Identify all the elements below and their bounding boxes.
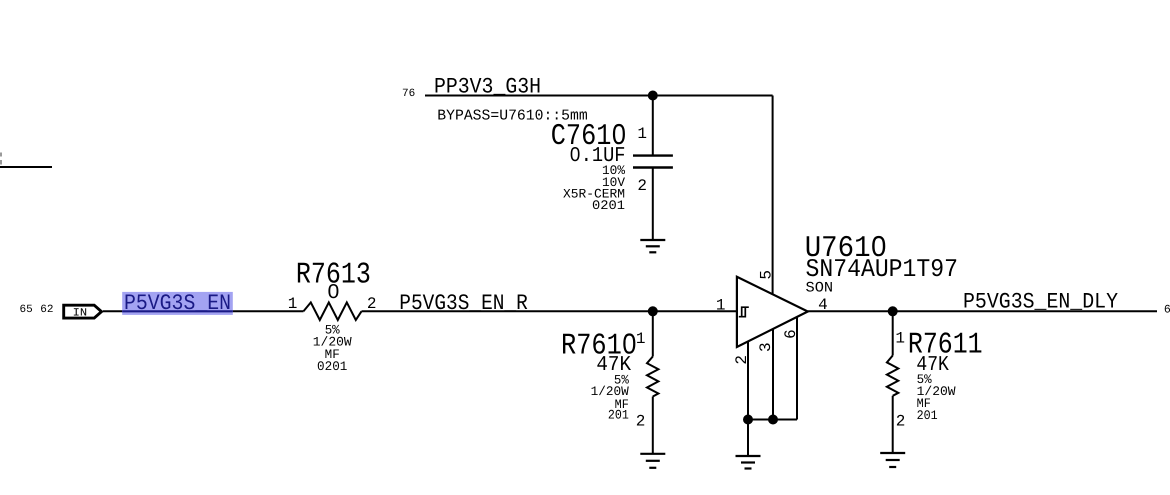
ground under C7610: [640, 240, 665, 252]
U7610 pin 6 label (rotated): [782, 329, 800, 339]
wire: R7611 bottom lead: [892, 396, 894, 453]
ground under U7610 control pins: [736, 456, 761, 469]
ground under R7611: [880, 453, 905, 467]
wire: U7610 pin 3 down: [772, 329, 774, 420]
wire: PP3V3_G3H horizontal net wire: [425, 95, 773, 97]
svg-text:0: 0: [327, 282, 340, 305]
svg-text:0201: 0201: [317, 359, 347, 374]
wire: U7610 pin 6 down: [796, 317, 798, 420]
junction dot at PP3V3_G3H / C7610: [648, 91, 658, 101]
wire: cap top lead: [652, 96, 654, 156]
svg-text:2: 2: [896, 413, 906, 431]
net label underline (navy): [122, 310, 233, 312]
U7610 pin 3 label (rotated): [757, 342, 775, 352]
resistor R7610 (pulldown): [647, 311, 658, 454]
wire: R7610 bottom lead: [652, 397, 654, 454]
svg-text:1: 1: [716, 297, 726, 315]
R7610 zigzag body: [647, 357, 658, 397]
op-amp buffer U7610 triangle: [737, 277, 808, 347]
svg-text:62: 62: [40, 304, 53, 316]
svg-text:P5VG3S_EN_DLY: P5VG3S_EN_DLY: [963, 290, 1118, 315]
wire: R7613 to U7610 pin 1: [362, 310, 737, 312]
svg-text:201: 201: [917, 408, 938, 423]
svg-text:65: 65: [20, 304, 33, 316]
wire: junction to R7611 top: [892, 311, 894, 355]
svg-text:1: 1: [895, 329, 905, 347]
svg-text:5: 5: [757, 270, 775, 280]
U7610 pin 5 label (rotated): [757, 270, 775, 280]
resistor R7613 (series 0 ohm): [304, 302, 362, 320]
svg-text:PP3V3_G3H: PP3V3_G3H: [434, 75, 541, 100]
junction dot output / R7611: [888, 306, 898, 316]
wire: down-right corner to U7610 pin 5: [772, 96, 774, 295]
svg-text:2: 2: [636, 413, 646, 431]
svg-text:1: 1: [637, 125, 647, 143]
wire: cap bottom lead: [652, 168, 654, 241]
svg-text:1: 1: [636, 330, 646, 348]
wire: port to R7613 pin1: [103, 310, 304, 312]
svg-text:0201: 0201: [592, 198, 625, 213]
wire: left edge stub (underline of cut-off net label): [0, 166, 52, 168]
R7611 zigzag body: [887, 356, 898, 396]
junction dot main wire / R7610: [648, 306, 658, 316]
svg-text:6: 6: [1164, 304, 1170, 317]
schmitt trigger hysteresis symbol: [739, 307, 749, 317]
svg-text:SON: SON: [806, 281, 834, 297]
svg-text:IN: IN: [73, 307, 88, 319]
svg-text:2: 2: [637, 177, 647, 195]
svg-text:201: 201: [608, 407, 629, 422]
cap plate bottom: [633, 166, 673, 168]
wire: U7610 pin 2 down: [747, 341, 749, 456]
svg-text:1: 1: [288, 295, 298, 313]
svg-text:P5VG3S_EN: P5VG3S_EN: [124, 291, 231, 316]
capacitor C7610: [633, 96, 673, 241]
port IN (input port flag): [64, 305, 102, 318]
resistor R7611 (output pulldown): [887, 311, 898, 453]
wire: junction to R7610 top: [652, 311, 654, 356]
cap plate top: [633, 154, 673, 156]
cut-off gray glyph fragment at left sheet edge: [0, 153, 2, 165]
wire: U7610 output to right edge: [808, 310, 1157, 312]
wire: tie bar pins 2-3-6: [748, 419, 797, 421]
junction dot pin2 tie: [743, 415, 753, 425]
svg-text:P5VG3S_EN_R: P5VG3S_EN_R: [399, 291, 528, 316]
junction dot pin3 tie: [768, 415, 778, 425]
highlight box for net P5VG3S_EN: [122, 292, 233, 315]
svg-text:76: 76: [402, 88, 415, 100]
ground under R7610: [640, 454, 665, 468]
U7610 pin 2 label (rotated): [733, 355, 751, 365]
